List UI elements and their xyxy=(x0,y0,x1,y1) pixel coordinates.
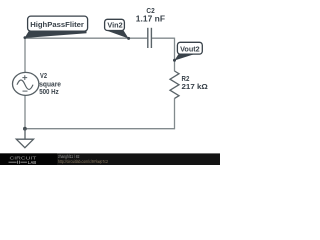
svg-text:500 Hz: 500 Hz xyxy=(39,87,59,96)
flag Vin2 xyxy=(105,19,131,40)
wire top-left horizontal xyxy=(25,37,147,39)
svg-text:LAB: LAB xyxy=(28,160,37,165)
flag HighPassFliter xyxy=(24,16,88,39)
wire right vertical upper xyxy=(174,38,176,72)
svg-text:Vin2: Vin2 xyxy=(107,20,122,29)
wire bottom horizontal xyxy=(25,128,175,130)
watermark logo CIRCUIT LAB xyxy=(9,155,37,166)
junction dot xyxy=(23,127,27,131)
svg-text:Vout2: Vout2 xyxy=(180,45,200,54)
ground xyxy=(16,129,33,148)
svg-text:217 kΩ: 217 kΩ xyxy=(182,82,208,91)
flag Vout2 xyxy=(173,42,202,62)
wire top-right horizontal xyxy=(152,37,175,39)
svg-text:http://circuitlab.com/c/9Ykwp7: http://circuitlab.com/c/9Ykwp7c2 xyxy=(58,159,108,164)
resistor R2 xyxy=(170,71,179,98)
watermark bar xyxy=(0,153,220,165)
voltage source V2 xyxy=(13,72,39,95)
wire left vertical lower xyxy=(24,95,26,128)
wire left vertical upper xyxy=(24,38,26,73)
capacitor C2 xyxy=(148,28,152,48)
wire right vertical lower xyxy=(174,98,176,129)
svg-text:HighPassFliter: HighPassFliter xyxy=(30,20,84,29)
svg-text:1.17 nF: 1.17 nF xyxy=(136,14,165,23)
